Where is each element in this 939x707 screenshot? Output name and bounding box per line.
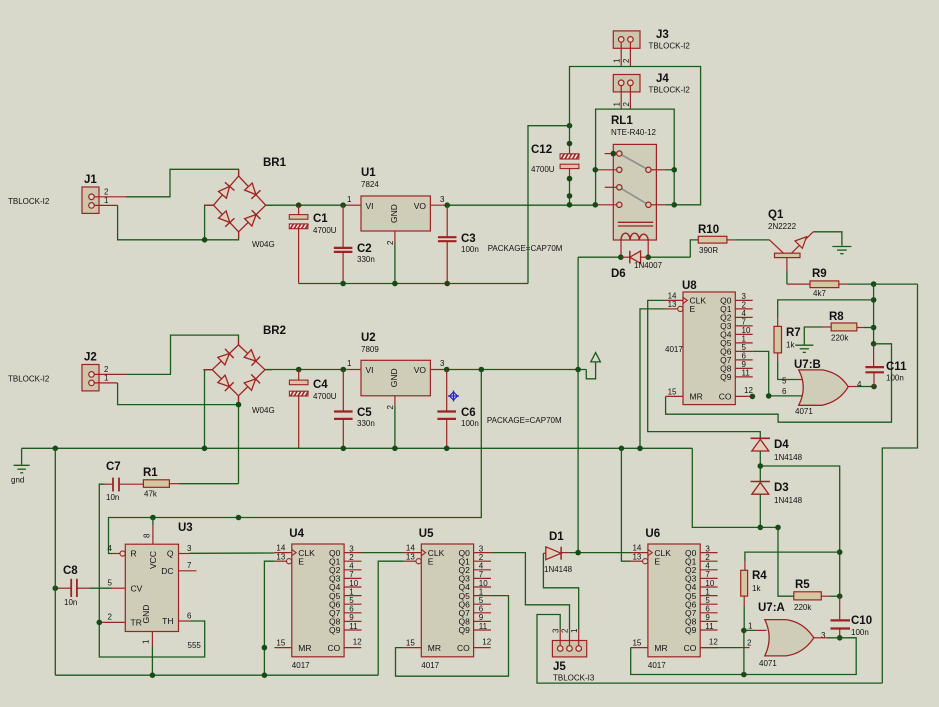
svg-text:1: 1 <box>142 639 151 644</box>
svg-text:R: R <box>131 549 137 559</box>
junction U2 GND bottom <box>392 446 398 452</box>
junction U3 VCC tap <box>150 515 156 521</box>
connector J3 <box>613 29 691 67</box>
svg-text:RL1: RL1 <box>611 115 633 127</box>
capacitor C12 <box>531 126 579 205</box>
svg-text:2: 2 <box>386 240 395 245</box>
svg-text:13: 13 <box>276 552 285 561</box>
junction C12 pin top <box>567 141 573 147</box>
wire U8 MR loop <box>666 344 892 422</box>
wire 24V rail BR1 to U1 <box>266 204 347 206</box>
svg-text:C2: C2 <box>357 243 372 255</box>
svg-text:12: 12 <box>709 637 718 646</box>
svg-text:1: 1 <box>104 374 109 383</box>
svg-text:BR2: BR2 <box>263 325 286 337</box>
svg-text:Q9: Q9 <box>685 625 697 635</box>
svg-text:TBLOCK-I2: TBLOCK-I2 <box>649 42 691 51</box>
junction C12 rail <box>567 202 573 208</box>
svg-text:R7: R7 <box>786 327 801 339</box>
svg-text:U6: U6 <box>645 528 660 540</box>
wire far right from R9 down to J5 net <box>882 284 917 683</box>
wire gnd branch vertical <box>54 448 56 675</box>
svg-text:R5: R5 <box>795 579 810 591</box>
svg-text:100n: 100n <box>886 374 904 383</box>
junction BR1 bottom node <box>202 237 208 243</box>
svg-text:NTE-R40-12: NTE-R40-12 <box>611 128 656 137</box>
wire gnd rail end down to D3 row <box>692 448 760 527</box>
capacitor C4 <box>289 370 336 449</box>
svg-text:U3: U3 <box>178 522 193 534</box>
resistor R7 <box>774 326 801 353</box>
svg-text:BR1: BR1 <box>263 157 287 169</box>
junction C3 top <box>444 202 450 208</box>
svg-text:1k: 1k <box>786 341 795 350</box>
svg-text:TH: TH <box>162 616 173 626</box>
wire J2 pin1 to BR2 bottom node <box>118 383 239 405</box>
junction coil left pin <box>618 254 624 260</box>
connector J4 <box>613 73 691 109</box>
svg-text:Q9: Q9 <box>458 625 470 635</box>
wire U5 MR to Q5 loop <box>396 596 509 677</box>
wire R8 left to ground <box>822 326 831 328</box>
wire J1 pin1 to BR1 bottom <box>118 205 239 239</box>
svg-text:J5: J5 <box>553 661 566 673</box>
svg-text:7824: 7824 <box>361 180 379 189</box>
svg-text:330n: 330n <box>357 419 375 428</box>
svg-text:W04G: W04G <box>252 240 275 249</box>
junction C12 wire bottom <box>567 193 573 199</box>
wire U3 GND down <box>151 646 153 675</box>
wire C12 loop from top ground rail <box>528 126 570 284</box>
svg-text:2: 2 <box>386 405 395 410</box>
capacitor C10 <box>831 596 873 638</box>
power arrow flag <box>586 353 600 379</box>
wire D1 cathode to U6 CLK <box>570 552 631 554</box>
junction C11 top node <box>871 341 877 347</box>
svg-text:CV: CV <box>131 583 143 593</box>
svg-text:15: 15 <box>668 388 677 397</box>
junction 9V to D1 tap <box>575 367 581 373</box>
svg-text:U4: U4 <box>289 528 304 540</box>
counter U8 4017 <box>665 280 753 405</box>
svg-text:15: 15 <box>406 639 415 648</box>
wire coil row D6 <box>578 256 621 258</box>
svg-text:U7:B: U7:B <box>794 359 821 371</box>
svg-text:1: 1 <box>570 628 579 633</box>
svg-text:15: 15 <box>632 639 641 648</box>
diode D4 1N4148 <box>751 438 803 462</box>
diode D3 1N4148 <box>751 482 803 506</box>
or-gate U7:B 4071 <box>782 359 862 416</box>
svg-text:1: 1 <box>104 196 109 205</box>
junction 9V to logic tap <box>479 367 485 373</box>
svg-text:220k: 220k <box>794 603 812 612</box>
wire J4 row <box>596 109 675 205</box>
connector J2 <box>8 352 126 391</box>
svg-text:4017: 4017 <box>292 661 310 670</box>
wire rail A bottom <box>55 674 378 676</box>
svg-text:J2: J2 <box>84 352 97 364</box>
svg-text:R9: R9 <box>812 268 827 280</box>
svg-text:TBLOCK-I2: TBLOCK-I2 <box>8 375 50 384</box>
svg-text:3: 3 <box>187 544 192 553</box>
svg-text:4071: 4071 <box>795 407 813 416</box>
junction relay right rail <box>671 202 677 208</box>
junction C6 bottom <box>444 446 450 452</box>
svg-text:100n: 100n <box>461 245 479 254</box>
capacitor C6 <box>437 370 478 449</box>
wire U4 E MR link <box>264 561 274 675</box>
svg-text:Q9: Q9 <box>329 625 341 635</box>
svg-text:4017: 4017 <box>665 345 683 354</box>
svg-text:11: 11 <box>479 622 488 631</box>
svg-text:R4: R4 <box>752 570 767 582</box>
svg-text:1N4148: 1N4148 <box>544 565 573 574</box>
junction relay NC row left <box>593 167 599 173</box>
origin marker <box>448 391 459 402</box>
junction C10 bottom on output <box>837 635 843 641</box>
svg-text:2: 2 <box>622 102 631 107</box>
capacitor C3 <box>438 205 479 283</box>
wire J2 pin2 to BR2 top <box>126 335 239 374</box>
svg-text:5: 5 <box>782 377 787 386</box>
wire J1 pin2 to BR1 top <box>126 169 239 197</box>
svg-text:1N4007: 1N4007 <box>634 261 663 270</box>
wire C7 left down to 555 timing node <box>99 484 104 622</box>
svg-text:11: 11 <box>349 622 358 631</box>
junction C6 top <box>444 367 450 373</box>
wire U8 Q6 to U7B input <box>753 351 806 396</box>
svg-text:C1: C1 <box>313 213 328 225</box>
wire C8 left <box>55 587 58 589</box>
svg-text:4: 4 <box>108 544 113 553</box>
capacitor C11 <box>865 344 907 387</box>
diode D1 1N4148 <box>543 531 572 574</box>
svg-text:E: E <box>298 556 304 566</box>
wire U6 MR to U7A loop <box>631 638 857 675</box>
svg-text:555: 555 <box>188 641 202 650</box>
capacitor C2 <box>334 205 375 283</box>
svg-text:1N4148: 1N4148 <box>774 453 803 462</box>
junction D3 row corner <box>775 525 781 531</box>
resistor R4 <box>741 570 768 596</box>
junction U7A pin1 node <box>741 628 747 634</box>
svg-text:PACKAGE=CAP70M: PACKAGE=CAP70M <box>488 244 563 253</box>
svg-text:DC: DC <box>161 566 173 576</box>
junction U8 E tap <box>637 446 643 452</box>
wire BR1 left vertex down <box>205 205 214 240</box>
junction R7 rail tap <box>871 297 877 303</box>
junction U7B pin6 node <box>766 393 772 399</box>
junction U3 GND rail A <box>150 672 156 678</box>
junction U8 CO dangling <box>750 394 756 400</box>
junction U4 MR node <box>262 645 268 651</box>
svg-text:13: 13 <box>406 552 415 561</box>
svg-text:8: 8 <box>143 533 152 538</box>
wire BR2 bottom through rail to R1 <box>238 396 240 484</box>
junction C2 top <box>340 202 346 208</box>
svg-text:VI: VI <box>366 201 374 211</box>
resistor R9 <box>810 268 839 298</box>
svg-text:U5: U5 <box>419 528 434 540</box>
svg-text:220k: 220k <box>831 334 849 343</box>
junction U7A pin1 bottom tee <box>741 672 747 678</box>
svg-text:CO: CO <box>328 643 341 653</box>
junction R5 C10 node <box>837 593 843 599</box>
svg-text:3: 3 <box>440 195 445 204</box>
junction D1 U6 CLK node <box>575 550 581 556</box>
svg-text:C11: C11 <box>886 361 907 373</box>
svg-text:10n: 10n <box>64 598 77 607</box>
wire 9V rail right <box>447 369 587 371</box>
svg-text:Q1: Q1 <box>768 209 784 221</box>
svg-text:TBLOCK-I3: TBLOCK-I3 <box>553 674 595 683</box>
svg-text:C5: C5 <box>357 407 372 419</box>
svg-text:2: 2 <box>561 628 570 633</box>
svg-text:4700U: 4700U <box>313 226 337 235</box>
wire U4 Q0 to U5 CLK <box>362 552 404 554</box>
junction C5 top <box>341 367 347 373</box>
svg-text:6: 6 <box>782 387 787 396</box>
svg-text:6: 6 <box>187 612 192 621</box>
junction U6 E tap <box>619 446 625 452</box>
wire 24V rail U1 to relay <box>447 204 595 206</box>
svg-text:7: 7 <box>187 561 192 570</box>
svg-text:7809: 7809 <box>361 345 379 354</box>
svg-text:gnd: gnd <box>11 476 24 485</box>
wire D3 bottom <box>759 494 761 527</box>
svg-text:47k: 47k <box>144 490 158 499</box>
svg-text:11: 11 <box>742 369 751 378</box>
resistor R1 <box>143 467 169 499</box>
wire U2 GND to rail <box>394 406 396 449</box>
svg-text:TBLOCK-I2: TBLOCK-I2 <box>8 197 50 206</box>
svg-text:CO: CO <box>457 643 470 653</box>
junction C3 bottom <box>444 281 450 287</box>
svg-text:1: 1 <box>347 359 352 368</box>
svg-text:4071: 4071 <box>759 659 777 668</box>
svg-text:C7: C7 <box>106 461 121 473</box>
svg-text:D1: D1 <box>549 531 564 543</box>
junction BR2 bottom node <box>236 402 242 408</box>
svg-text:4700U: 4700U <box>313 392 337 401</box>
bridge rectifier BR1 <box>205 157 287 249</box>
svg-text:100n: 100n <box>461 419 479 428</box>
or-gate U7:A 4071 <box>747 602 826 668</box>
svg-text:3: 3 <box>821 631 826 640</box>
ground symbol left <box>11 448 30 484</box>
svg-text:C3: C3 <box>461 233 476 245</box>
svg-text:4700U: 4700U <box>531 165 555 174</box>
connector J5 <box>551 628 595 683</box>
svg-text:11: 11 <box>705 622 714 631</box>
counter U4 4017 <box>274 528 362 670</box>
connector J1 <box>8 174 126 213</box>
wire U5 E down to rail A <box>378 561 404 675</box>
svg-text:VO: VO <box>414 365 427 375</box>
resistor R10 <box>698 224 727 255</box>
wire R7 top <box>777 317 779 326</box>
junction C2 bottom <box>340 281 346 287</box>
svg-text:MR: MR <box>690 392 703 402</box>
svg-text:E: E <box>690 304 696 314</box>
wire R4 top horizontal <box>745 552 840 561</box>
svg-text:C12: C12 <box>531 144 552 156</box>
svg-text:VI: VI <box>366 365 374 375</box>
junction U1 GND bottom <box>392 281 398 287</box>
junction C1 top <box>296 202 302 208</box>
regulator U1 7824 <box>347 167 447 245</box>
capacitor C5 <box>334 370 375 449</box>
svg-text:10n: 10n <box>106 493 119 502</box>
wire D3 row to R5 branch <box>760 527 794 596</box>
svg-text:5: 5 <box>108 579 113 588</box>
svg-text:U8: U8 <box>682 280 697 292</box>
wire U6 CO to U7A pin2 <box>700 647 710 649</box>
wire U8 CLK to D4 <box>648 300 761 438</box>
wire Q1 base to R9 <box>786 271 788 284</box>
regulator U2 7809 <box>347 332 447 410</box>
svg-text:E: E <box>654 556 660 566</box>
svg-text:1: 1 <box>748 622 753 631</box>
svg-text:4: 4 <box>857 380 862 389</box>
wire U7B output <box>848 386 858 388</box>
junction C11 bottom on output <box>871 384 877 390</box>
svg-text:W04G: W04G <box>252 406 275 415</box>
svg-text:1N4148: 1N4148 <box>774 496 803 505</box>
capacitor C7 <box>105 461 144 502</box>
resistor R5 <box>794 579 822 612</box>
svg-text:1k: 1k <box>752 584 761 593</box>
svg-text:CO: CO <box>684 643 697 653</box>
svg-text:1: 1 <box>613 58 622 63</box>
wire R10 to Q1 collector <box>727 239 736 241</box>
wire R1 right up to BR2 node <box>169 483 179 485</box>
svg-text:D4: D4 <box>774 439 789 451</box>
junction D3 D4 node <box>758 463 764 469</box>
junction C5 bottom <box>341 446 347 452</box>
svg-text:4017: 4017 <box>648 661 666 670</box>
svg-text:2: 2 <box>622 58 631 63</box>
svg-text:J1: J1 <box>84 174 97 186</box>
svg-text:U1: U1 <box>361 167 376 179</box>
ground symbol right of Q1 <box>832 247 851 254</box>
junction relay left rail <box>593 202 599 208</box>
svg-text:100n: 100n <box>851 628 869 637</box>
svg-text:R8: R8 <box>829 311 844 323</box>
wire U1 GND to rail <box>394 243 396 284</box>
wire 9V logic feed down <box>109 370 482 554</box>
svg-text:330n: 330n <box>357 255 375 264</box>
junction gnd rail C8 branch <box>53 446 59 452</box>
svg-text:R10: R10 <box>698 224 719 236</box>
svg-text:3: 3 <box>551 628 560 633</box>
junction U4 rail A <box>262 672 268 678</box>
junction C12 branch <box>567 123 573 129</box>
svg-text:15: 15 <box>276 639 285 648</box>
capacitor C8 <box>58 565 90 607</box>
svg-text:R1: R1 <box>143 467 158 479</box>
svg-text:GND: GND <box>389 204 399 223</box>
junction R8 right <box>871 325 877 331</box>
svg-text:J4: J4 <box>656 73 669 85</box>
wire U3 VCC up <box>152 518 154 526</box>
svg-text:VO: VO <box>414 201 427 211</box>
wire coil row down to 9V rail <box>577 257 579 369</box>
svg-text:3: 3 <box>440 359 445 368</box>
relay RL1 <box>598 115 674 257</box>
timer U3 555 <box>102 522 201 650</box>
diode D6 1N4007 <box>611 251 663 280</box>
svg-text:MR: MR <box>298 643 311 653</box>
ground symbol below R8 <box>795 345 813 352</box>
svg-text:MR: MR <box>428 643 441 653</box>
svg-text:PACKAGE=CAP70M: PACKAGE=CAP70M <box>487 416 562 425</box>
svg-text:C10: C10 <box>851 615 872 627</box>
svg-text:1: 1 <box>347 195 352 204</box>
svg-text:12: 12 <box>482 637 491 646</box>
svg-text:1: 1 <box>613 102 622 107</box>
resistor R8 <box>829 311 857 343</box>
wire U8 E down to ground rail <box>640 309 666 448</box>
junction TR node <box>97 620 103 626</box>
svg-text:GND: GND <box>141 605 151 624</box>
transistor Q1 2N2222 <box>768 209 813 271</box>
svg-text:Q9: Q9 <box>720 372 732 382</box>
wire R4 bottom to U7A pin1 <box>743 596 745 606</box>
wire J5 pin3 long MR net <box>537 615 882 684</box>
svg-text:GND: GND <box>389 368 399 387</box>
wire C8 right to CV <box>90 587 112 589</box>
svg-text:MR: MR <box>654 643 667 653</box>
wire R7 bottom to U7B pin5 <box>777 353 779 362</box>
svg-text:Q: Q <box>167 549 174 559</box>
svg-text:390R: 390R <box>699 246 718 255</box>
svg-text:U7:A: U7:A <box>758 602 785 614</box>
wire U7A output <box>814 637 827 639</box>
svg-text:2: 2 <box>747 639 752 648</box>
svg-text:VCC: VCC <box>148 551 158 569</box>
wire D3 D4 node to right <box>760 466 839 596</box>
wire D1 anode to J5 pin1 <box>543 553 578 629</box>
svg-text:13: 13 <box>632 552 641 561</box>
junction logic rail tap2 <box>236 515 242 521</box>
wire U3 Q to U4 CLK <box>190 552 275 554</box>
wire BR2 left vertex to ground rail <box>205 370 213 449</box>
wire R8 right <box>857 327 864 329</box>
ground rail long <box>22 447 693 449</box>
svg-text:J3: J3 <box>656 29 669 41</box>
junction D3 bottom <box>758 525 764 531</box>
svg-text:13: 13 <box>668 300 677 309</box>
junction R9 node <box>871 281 877 287</box>
wire U7A pin1 vertical <box>743 630 745 674</box>
wire J3 row <box>570 67 701 205</box>
junction relay right row <box>671 167 677 173</box>
wire TH TR link <box>99 621 204 657</box>
wire Q1 emitter to ground <box>813 232 842 246</box>
svg-text:C4: C4 <box>313 379 328 391</box>
wire 9V rail BR2 to U2 <box>265 369 347 371</box>
svg-text:C6: C6 <box>461 407 476 419</box>
wire top ground rail <box>299 283 528 285</box>
svg-text:CO: CO <box>719 392 732 402</box>
junction C8 gnd branch <box>53 585 59 591</box>
junction C4 top <box>296 367 302 373</box>
bridge rectifier BR2 <box>203 325 286 415</box>
svg-text:2N2222: 2N2222 <box>768 222 797 231</box>
wire R9 node vertical <box>873 284 875 344</box>
